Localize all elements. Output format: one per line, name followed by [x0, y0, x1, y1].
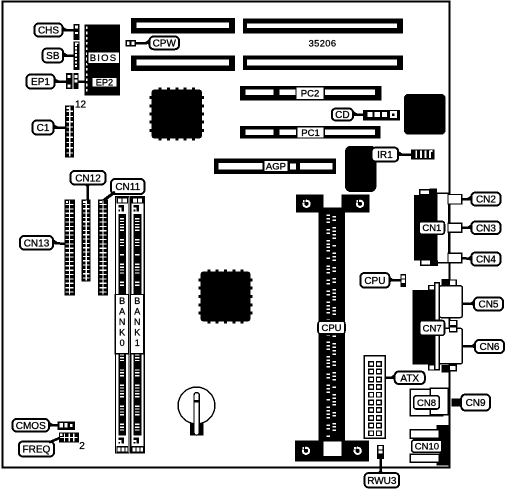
chip BIOS (flash ROM) — [85, 25, 120, 96]
svg-text:CD: CD — [335, 110, 349, 121]
svg-text:K: K — [119, 328, 125, 338]
battery BT1 — [178, 387, 215, 436]
svg-text:EP1: EP1 — [31, 77, 50, 88]
chip U2 northbridge — [199, 270, 253, 324]
label CD — [332, 109, 363, 122]
connector CN10 — [410, 425, 450, 465]
svg-text:PC2: PC2 — [301, 89, 319, 100]
port CN9 nub — [451, 399, 461, 407]
label CHS — [35, 24, 74, 37]
AGP slot — [214, 158, 336, 174]
label CMOS — [13, 419, 58, 432]
port CN6 (parallel DB25) — [439, 328, 462, 364]
svg-text:AGP: AGP — [266, 161, 286, 172]
label AGP box — [264, 160, 289, 172]
ISA slot 1 right segment — [243, 18, 403, 33]
svg-text:CPU: CPU — [321, 323, 341, 334]
port CN4 (USB) — [448, 253, 462, 262]
svg-text:CN7: CN7 — [423, 323, 442, 334]
port CN2 (keyboard) — [448, 195, 462, 205]
svg-text:CN2: CN2 — [476, 195, 496, 206]
svg-text:N: N — [134, 317, 141, 327]
svg-text:N: N — [119, 317, 126, 327]
connector header row B (CN12) — [82, 200, 91, 282]
connector CN8 body — [410, 388, 448, 416]
label PC1 box — [297, 127, 324, 139]
svg-text:RWU3: RWU3 — [367, 476, 397, 487]
label EP2 box — [92, 77, 117, 88]
label C1 — [33, 121, 66, 135]
svg-text:B: B — [119, 296, 125, 306]
DIMM socket BANK1 — [131, 197, 145, 453]
label CN2 — [462, 193, 501, 206]
svg-text:CN12: CN12 — [75, 173, 101, 184]
svg-text:12: 12 — [75, 100, 87, 111]
svg-text:CN10: CN10 — [415, 442, 439, 453]
jumper FREQ select — [59, 433, 79, 443]
text pin 12 marker — [75, 100, 87, 111]
label CN8 box — [414, 396, 439, 409]
label CN11 — [104, 179, 145, 201]
label CPU slot box — [318, 321, 345, 334]
svg-text:K: K — [134, 328, 140, 338]
board part number 35206 — [309, 39, 337, 49]
label CN5 — [462, 298, 503, 311]
connector C1 header — [65, 106, 74, 158]
label CN7 box — [420, 321, 445, 336]
svg-text:CN1: CN1 — [422, 223, 441, 234]
screw hole top right — [355, 199, 366, 210]
wire EP1 to EP2 — [79, 80, 92, 83]
label IR1 — [372, 148, 411, 162]
svg-text:CN11: CN11 — [115, 182, 140, 193]
label ATX — [385, 372, 425, 385]
jumper RWU3 — [377, 445, 384, 459]
connector CHS header — [74, 24, 80, 40]
label BANK1 box — [131, 295, 144, 354]
label CN13 — [20, 236, 64, 250]
svg-text:35206: 35206 — [309, 39, 337, 49]
svg-text:PC1: PC1 — [301, 128, 319, 139]
connector CD audio header — [363, 110, 400, 120]
svg-text:CPU: CPU — [364, 276, 385, 287]
CPU slot bottom notch — [322, 441, 342, 457]
label BANK0 box — [115, 295, 128, 354]
jumper CMOS clear — [58, 421, 75, 430]
svg-text:IR1: IR1 — [377, 150, 393, 161]
label CN6 — [462, 340, 504, 353]
connector header row A (CN13) — [64, 200, 74, 296]
connector header row C (CN11) — [98, 200, 108, 296]
CPU slot body (Slot 1) — [319, 211, 345, 441]
PCI slot PC2 — [240, 86, 382, 101]
tabs between CN5 CN6 — [450, 321, 457, 332]
svg-text:CHS: CHS — [38, 26, 59, 37]
svg-text:2: 2 — [79, 441, 85, 452]
connector SB header — [74, 41, 80, 69]
ISA slot 2 right segment — [243, 55, 403, 70]
svg-text:A: A — [134, 306, 140, 316]
port CN3 (mouse) — [448, 223, 462, 232]
CPU slot top notch — [322, 195, 342, 209]
svg-text:C1: C1 — [37, 123, 50, 134]
label CN9 — [456, 395, 490, 411]
svg-text:CPW: CPW — [153, 38, 177, 49]
ISA slot 1 left segment — [131, 18, 235, 34]
label SB — [43, 49, 74, 63]
svg-text:1: 1 — [135, 338, 140, 348]
label CN12 — [71, 171, 106, 200]
svg-text:EP2: EP2 — [96, 78, 113, 88]
CPU slot top bracket — [296, 195, 370, 213]
port CN5 (serial DB9) — [439, 286, 462, 318]
chip U1 south I/O — [150, 88, 205, 141]
label FREQ — [19, 438, 60, 457]
jumper EP1 block — [66, 73, 79, 89]
label CPW — [136, 37, 179, 50]
connector CN7 port stack — [413, 279, 457, 372]
text pin 2 marker — [79, 441, 85, 452]
svg-text:CN8: CN8 — [417, 398, 436, 409]
connector CN1 PS/2 stack — [414, 188, 449, 266]
svg-text:BIOS: BIOS — [90, 53, 118, 64]
label CN4 — [462, 253, 501, 266]
label PC2 box — [296, 87, 324, 100]
connector CPW header — [126, 40, 136, 46]
CPU slot bottom bracket — [295, 441, 369, 462]
PCI slot PC1 — [240, 126, 381, 139]
jumper CPU freq select — [400, 274, 406, 287]
svg-text:CMOS: CMOS — [16, 421, 46, 432]
chip U3 near right edge — [404, 94, 446, 135]
label RWU3 — [365, 459, 400, 488]
svg-text:CN6: CN6 — [479, 342, 499, 353]
svg-text:CN4: CN4 — [476, 255, 496, 266]
svg-text:A: A — [119, 306, 125, 316]
screw hole bottom left — [301, 446, 312, 457]
screw hole top left — [301, 199, 312, 210]
label CN1 box — [419, 221, 444, 234]
ISA slot 2 left segment — [131, 56, 235, 71]
svg-text:CN3: CN3 — [476, 223, 496, 234]
svg-text:CN5: CN5 — [478, 300, 498, 311]
label EP1 — [27, 75, 66, 89]
connector ATX power — [364, 356, 385, 438]
connector IR1 header — [411, 149, 435, 159]
DIMM socket BANK0 — [116, 197, 130, 453]
svg-text:SB: SB — [46, 51, 60, 62]
svg-text:0: 0 — [120, 338, 125, 348]
svg-text:CN13: CN13 — [24, 238, 50, 249]
label BIOS box — [88, 52, 120, 64]
svg-text:ATX: ATX — [400, 373, 419, 384]
label CN3 — [462, 222, 501, 235]
svg-text:FREQ: FREQ — [23, 445, 51, 456]
svg-text:B: B — [134, 296, 140, 306]
label CPU jumper — [360, 273, 400, 288]
svg-text:CN9: CN9 — [466, 398, 486, 409]
screw hole bottom right — [352, 446, 363, 457]
label CN10 box — [412, 440, 442, 453]
chip voltage regulator — [345, 146, 377, 192]
